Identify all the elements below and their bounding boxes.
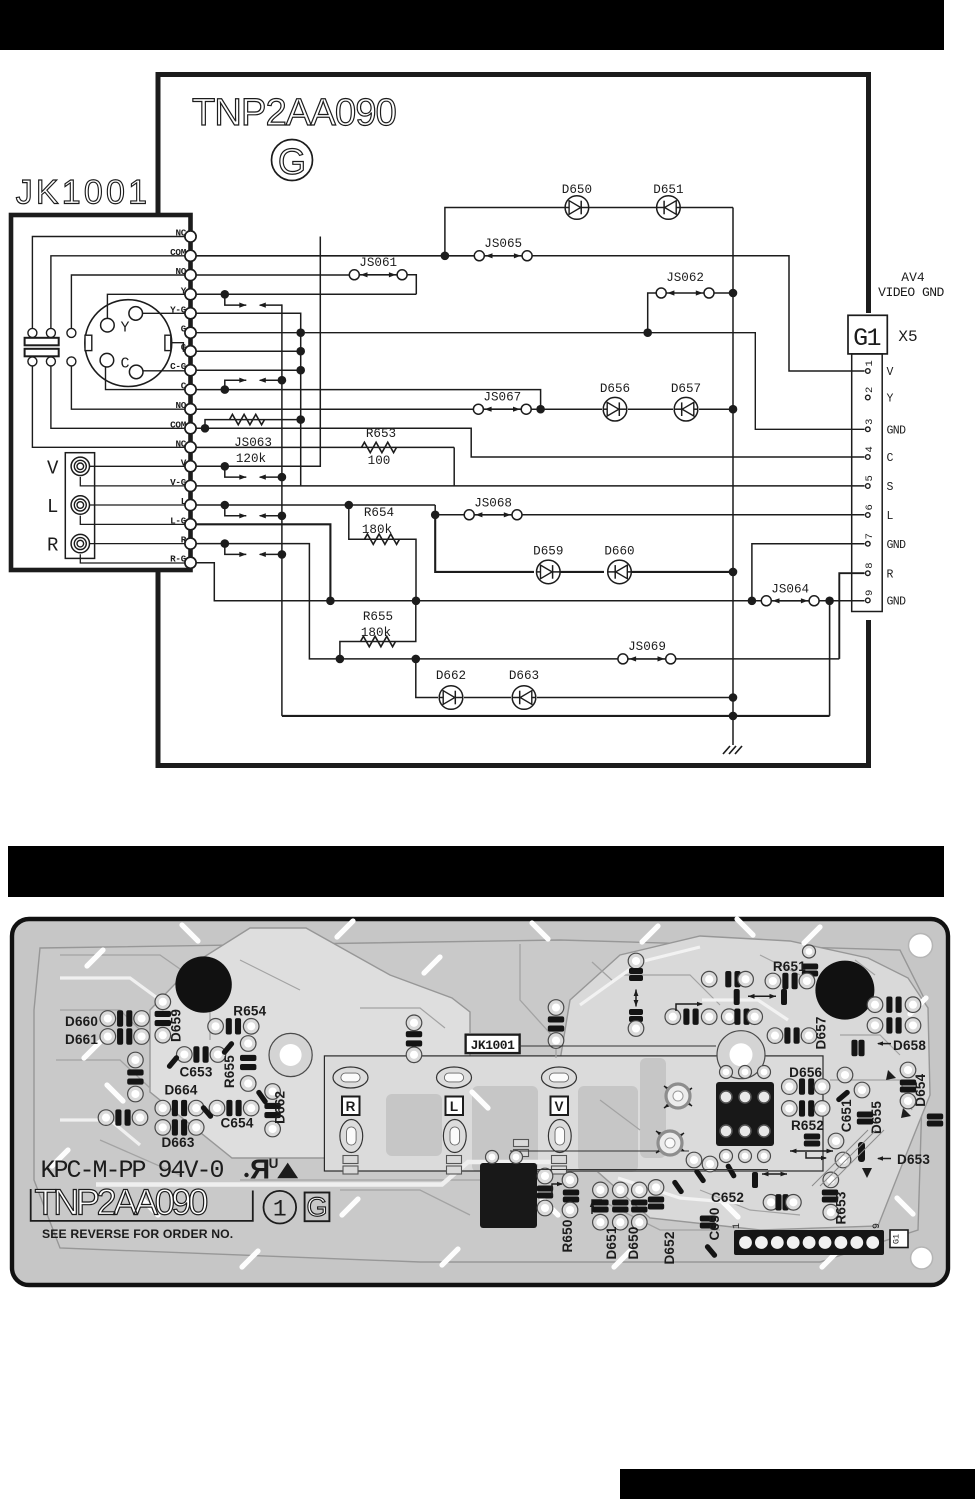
svg-text:D663: D663 <box>161 1135 194 1150</box>
svg-text:180k: 180k <box>362 523 392 537</box>
svg-text:D658: D658 <box>893 1038 926 1053</box>
svg-text:2: 2 <box>864 387 876 393</box>
svg-text:1: 1 <box>273 1197 287 1223</box>
svg-text:R: R <box>346 1099 356 1114</box>
svg-text:4: 4 <box>864 446 876 452</box>
svg-text:R654: R654 <box>364 506 394 520</box>
svg-text:JS068: JS068 <box>474 497 512 511</box>
svg-text:D653: D653 <box>897 1152 930 1167</box>
svg-text:COM: COM <box>170 247 187 258</box>
svg-text:GND: GND <box>887 539 907 552</box>
svg-text:C653: C653 <box>179 1065 212 1080</box>
svg-text:R: R <box>181 535 187 546</box>
svg-text:C-G: C-G <box>170 361 187 372</box>
svg-text:D651: D651 <box>604 1226 619 1259</box>
svg-text:9: 9 <box>872 1223 883 1229</box>
svg-text:JS067: JS067 <box>483 391 521 405</box>
svg-text:V: V <box>47 457 59 479</box>
svg-text:G: G <box>306 1192 327 1222</box>
svg-text:D660: D660 <box>604 545 634 559</box>
svg-text:R: R <box>887 568 894 581</box>
svg-text:R650: R650 <box>560 1219 575 1252</box>
svg-text:Y: Y <box>121 320 130 337</box>
svg-text:3: 3 <box>864 419 876 425</box>
svg-text:Y: Y <box>887 393 894 406</box>
svg-text:1: 1 <box>732 1223 743 1229</box>
svg-text:Я: Я <box>250 1154 270 1185</box>
svg-text:C: C <box>887 452 894 465</box>
svg-text:V-G: V-G <box>170 477 187 488</box>
svg-text:100: 100 <box>368 454 391 468</box>
svg-text:D662: D662 <box>273 1091 288 1124</box>
svg-text:G1: G1 <box>892 1234 902 1244</box>
svg-text:D652: D652 <box>662 1231 677 1264</box>
svg-text:R653: R653 <box>834 1191 849 1224</box>
svg-text:C: C <box>181 381 187 392</box>
svg-text:D651: D651 <box>653 183 683 197</box>
svg-text:G: G <box>181 324 187 335</box>
svg-text:GND: GND <box>887 596 907 609</box>
svg-text:C651: C651 <box>839 1099 854 1132</box>
svg-text:JK1001: JK1001 <box>471 1038 516 1053</box>
svg-text:JK1001: JK1001 <box>16 174 151 212</box>
svg-text:NC: NC <box>175 228 186 239</box>
svg-text:C: C <box>121 356 130 373</box>
svg-text:R654: R654 <box>233 1004 266 1019</box>
svg-text:9: 9 <box>864 590 876 596</box>
svg-text:TNP2AA090: TNP2AA090 <box>35 1182 208 1223</box>
svg-text:Y-G: Y-G <box>170 304 187 315</box>
svg-text:D659: D659 <box>169 1009 184 1042</box>
svg-text:7: 7 <box>864 533 876 539</box>
svg-text:R: R <box>47 535 58 557</box>
svg-text:120k: 120k <box>236 452 266 466</box>
svg-text:L-G: L-G <box>170 515 187 526</box>
svg-text:G: G <box>278 141 306 182</box>
svg-text:COM: COM <box>170 419 187 430</box>
svg-text:NC: NC <box>175 438 186 449</box>
svg-text:JS061: JS061 <box>359 256 397 270</box>
svg-text:L: L <box>887 510 894 523</box>
svg-text:TNP2AA090: TNP2AA090 <box>192 92 396 134</box>
svg-text:6: 6 <box>864 504 876 510</box>
svg-text:L: L <box>47 496 58 518</box>
svg-text:D661: D661 <box>65 1032 98 1047</box>
svg-text:JS065: JS065 <box>484 237 522 251</box>
svg-text:G: G <box>181 342 187 353</box>
svg-text:AV4: AV4 <box>901 270 925 285</box>
svg-text:D662: D662 <box>436 669 466 683</box>
svg-text:C654: C654 <box>220 1116 253 1131</box>
svg-text:JS069: JS069 <box>628 640 666 654</box>
svg-text:D650: D650 <box>626 1226 641 1259</box>
svg-text:5: 5 <box>864 475 876 481</box>
svg-text:R652: R652 <box>791 1118 824 1133</box>
svg-text:X5: X5 <box>898 328 917 346</box>
svg-text:R655: R655 <box>363 610 393 624</box>
svg-text:JS064: JS064 <box>771 583 809 597</box>
svg-text:1: 1 <box>864 360 876 366</box>
svg-text:S: S <box>887 481 894 494</box>
svg-text:C650: C650 <box>707 1207 722 1240</box>
svg-text:D659: D659 <box>533 545 563 559</box>
svg-text:G1: G1 <box>853 324 880 353</box>
svg-text:U: U <box>269 1156 279 1171</box>
svg-text:L: L <box>450 1099 458 1114</box>
svg-text:180k: 180k <box>361 626 391 640</box>
svg-text:D664: D664 <box>164 1083 197 1098</box>
svg-text:8: 8 <box>864 562 876 568</box>
svg-text:D663: D663 <box>509 669 539 683</box>
svg-text:D656: D656 <box>789 1065 822 1080</box>
svg-text:GND: GND <box>887 425 907 438</box>
svg-text:R655: R655 <box>222 1055 237 1088</box>
svg-text:V: V <box>181 457 187 468</box>
svg-text:D657: D657 <box>671 382 701 396</box>
svg-text:V: V <box>887 366 894 379</box>
svg-text:D660: D660 <box>65 1014 98 1029</box>
svg-text:D657: D657 <box>814 1016 829 1049</box>
svg-text:V: V <box>554 1099 563 1114</box>
svg-text:SEE REVERSE FOR ORDER NO.: SEE REVERSE FOR ORDER NO. <box>42 1227 233 1241</box>
svg-text:R651: R651 <box>773 959 806 974</box>
svg-text:JS062: JS062 <box>666 271 704 285</box>
svg-text:Y: Y <box>181 285 187 296</box>
svg-text:VIDEO GND: VIDEO GND <box>878 285 944 300</box>
svg-text:C652: C652 <box>711 1190 744 1205</box>
svg-text:NO: NO <box>175 400 186 411</box>
svg-text:L: L <box>181 496 187 507</box>
svg-text:R-G: R-G <box>170 554 187 565</box>
svg-text:D656: D656 <box>600 382 630 396</box>
svg-text:R653: R653 <box>366 427 396 441</box>
svg-text:D650: D650 <box>562 183 592 197</box>
svg-text:NO: NO <box>175 266 186 277</box>
